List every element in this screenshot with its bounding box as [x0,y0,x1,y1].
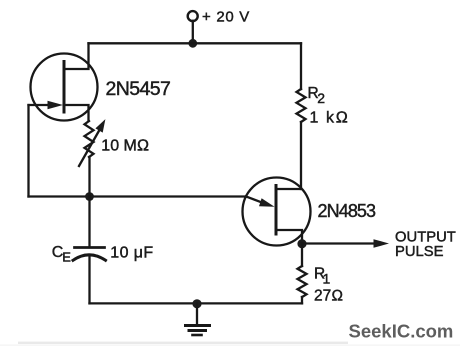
svg-text:OUTPUT: OUTPUT [395,229,456,245]
svg-text:E: E [62,250,71,265]
transistor Q2 channel bar [275,186,278,235]
wire R2 to Q2 drain [300,122,302,189]
wire Q2 drain lead [276,188,301,190]
wire gate bus [29,195,247,197]
svg-text:10 μF: 10 μF [110,244,153,261]
variable resistor 10 Mohm zigzag [85,121,94,157]
wire zigzag to mid node [88,157,90,197]
wire top rail to R2 [300,43,302,89]
transistor Q1 gate arrow [29,104,53,106]
svg-text:27Ω: 27Ω [314,288,343,305]
ground [196,303,198,325]
node junction top [188,39,197,48]
svg-text:PULSE: PULSE [395,244,444,260]
svg-text:1 kΩ: 1 kΩ [310,109,350,126]
capacitor CE top plate [75,246,105,249]
wire terminal drop [192,21,194,43]
node junction ground [192,299,201,308]
wire left feedback [27,105,29,197]
capacitor CE bottom plate [73,255,106,261]
wire R1 to bottom rail [301,297,303,303]
wire Q1 source lead [64,105,89,121]
resistor R2 zigzag [297,89,306,122]
wire top rail [89,42,302,44]
supply terminal +20V [188,11,198,21]
svg-text:SeekIC.com: SeekIC.com [349,321,454,342]
transistor Q1 channel bar [63,62,66,113]
svg-text:+ 20 V: + 20 V [202,9,250,26]
wire mid node to capacitor [88,197,90,248]
output arrow [302,242,376,244]
resistor R1 zigzag [298,266,307,297]
node junction mid [85,192,94,201]
transistor Q1 2N5457 body [31,54,98,121]
wire Q2 source lead [276,230,302,244]
wire capacitor to bottom rail [88,255,90,303]
svg-text:2: 2 [317,90,325,106]
svg-text:1: 1 [323,271,331,287]
svg-text:2N4853: 2N4853 [318,201,377,221]
transistor Q2 2N4853 body [243,178,311,246]
transistor Q2 gate arrow [246,197,262,203]
wire bottom rail [90,302,303,304]
wire Q1 drain lead [64,43,89,69]
svg-text:2N5457: 2N5457 [106,78,171,100]
variable resistor arrow [79,129,100,166]
node output junction [297,239,306,248]
wire output node to R1 [301,244,303,267]
svg-text:10 MΩ: 10 MΩ [101,138,149,155]
